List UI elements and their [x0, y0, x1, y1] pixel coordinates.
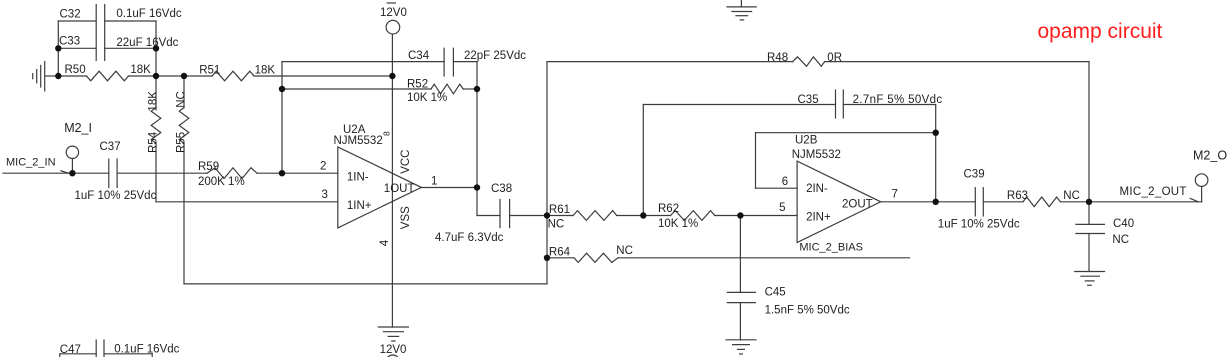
- wire U2B output: [881, 201, 976, 203]
- svg-text:M2_O: M2_O: [1193, 149, 1227, 163]
- wire R48 left vertical: [546, 62, 548, 284]
- junction (58,76): [55, 73, 61, 79]
- resistor R51: [184, 71, 392, 81]
- wire left vertical C32/C33: [57, 21, 59, 76]
- svg-text:C38: C38: [491, 183, 512, 195]
- svg-text:NC: NC: [1112, 234, 1129, 246]
- svg-text:R48: R48: [767, 52, 788, 64]
- svg-text:4: 4: [379, 239, 391, 246]
- svg-text:R52: R52: [407, 78, 428, 90]
- junction (547,258): [544, 255, 550, 261]
- wire bottom feedback rail: [184, 283, 547, 285]
- svg-text:VSS: VSS: [400, 206, 412, 229]
- svg-text:C35: C35: [798, 94, 819, 106]
- svg-text:10K 1%: 10K 1%: [658, 218, 698, 230]
- resistor R59: [207, 168, 338, 179]
- wire pin6 vertical: [755, 133, 757, 189]
- svg-text:R64: R64: [549, 247, 571, 259]
- svg-text:1: 1: [431, 175, 437, 187]
- junction (283,89): [279, 86, 285, 92]
- junction U2B output: [933, 199, 939, 205]
- wire C47 vertical left: [59, 354, 61, 357]
- wire vertical feedback left: [281, 62, 283, 174]
- ground GND-12V0: [378, 327, 408, 341]
- capacitor C37: [109, 159, 117, 187]
- svg-text:R55: R55: [175, 132, 187, 153]
- wire MIC_2_OUT lead: [1089, 201, 1202, 203]
- svg-text:1OUT: 1OUT: [384, 183, 415, 195]
- svg-text:6: 6: [782, 176, 788, 188]
- svg-text:C37: C37: [100, 141, 121, 153]
- ground GND-top-middle: [727, 0, 756, 20]
- svg-text:R54: R54: [147, 131, 159, 153]
- wire right vertical C32/C33: [155, 21, 157, 76]
- testpoint M2_I: [66, 146, 78, 173]
- wire C32 top rail left: [58, 20, 96, 22]
- svg-text:C47: C47: [60, 344, 81, 356]
- svg-text:NC: NC: [175, 91, 187, 108]
- capacitor C40: [1076, 224, 1105, 233]
- svg-text:NC: NC: [1063, 190, 1080, 202]
- wire MIC_2_IN lead: [3, 172, 109, 174]
- svg-text:C33: C33: [59, 36, 80, 48]
- svg-text:10K 1%: 10K 1%: [407, 92, 447, 104]
- junction (184,76): [181, 73, 187, 79]
- resistor R52: [282, 84, 477, 94]
- svg-text:VCC: VCC: [400, 150, 412, 174]
- svg-text:22pF 25Vdc: 22pF 25Vdc: [464, 50, 526, 62]
- svg-text:1uF 10% 25Vdc: 1uF 10% 25Vdc: [938, 218, 1020, 230]
- svg-text:C45: C45: [765, 287, 786, 299]
- svg-text:NC: NC: [616, 245, 633, 257]
- svg-text:2OUT: 2OUT: [842, 199, 873, 211]
- resistor R48: [547, 57, 1089, 66]
- wire U2A output: [421, 187, 477, 189]
- svg-text:R61: R61: [549, 204, 570, 216]
- svg-text:12V0: 12V0: [380, 7, 407, 19]
- wire C47 rail left: [60, 353, 96, 355]
- svg-text:2.7nF 5% 50Vdc: 2.7nF 5% 50Vdc: [853, 94, 943, 106]
- wire C40 to ground: [1088, 234, 1090, 272]
- svg-text:C32: C32: [60, 9, 81, 21]
- svg-text:NC: NC: [548, 219, 565, 231]
- wire pin6 U2B: [756, 187, 798, 189]
- svg-text:NJM5532: NJM5532: [334, 135, 383, 147]
- svg-text:0.1uF 16Vdc: 0.1uF 16Vdc: [114, 344, 179, 356]
- wire C38 to R61: [510, 215, 547, 217]
- svg-text:R63: R63: [1007, 190, 1028, 202]
- svg-text:18K: 18K: [255, 65, 276, 77]
- capacitor C39: [975, 188, 983, 216]
- op-amp U2B: [797, 161, 881, 242]
- wire C45 to ground: [739, 303, 741, 340]
- capacitor C35: [836, 90, 844, 118]
- junction (936,133): [933, 130, 939, 136]
- wire C35 left vertical: [642, 105, 644, 216]
- resistor R64: [547, 253, 910, 262]
- junction (642,216): [640, 212, 646, 218]
- resistor R50: [58, 71, 156, 81]
- svg-text:NJM5532: NJM5532: [792, 149, 841, 161]
- svg-text:1uF 10% 25Vdc: 1uF 10% 25Vdc: [75, 190, 157, 202]
- resistor R63: [983, 197, 1089, 207]
- wire 12V0 to VCC and pin4 to ground: [391, 35, 393, 327]
- svg-text:18K: 18K: [147, 91, 159, 112]
- wire node A to node B: [156, 75, 184, 77]
- junction (58,48): [55, 45, 61, 51]
- capacitor C38: [500, 200, 510, 228]
- svg-text:R51: R51: [199, 65, 220, 77]
- net tick MIC_2_IN: [61, 171, 69, 173]
- svg-text:8: 8: [382, 131, 392, 136]
- wire C37 to R59: [117, 172, 207, 174]
- wire ground to node A: [45, 75, 59, 77]
- wire C47 rail right: [104, 353, 152, 355]
- svg-text:R62: R62: [658, 203, 679, 215]
- svg-text:200K 1%: 200K 1%: [198, 176, 245, 188]
- wire C35 rail right: [843, 104, 935, 106]
- junction (156,48): [153, 45, 159, 51]
- wire C45 vertical: [739, 216, 741, 293]
- svg-text:U2B: U2B: [795, 135, 818, 147]
- op-amp U2A: [338, 147, 422, 228]
- svg-text:12V0: 12V0: [380, 344, 407, 356]
- svg-text:2IN+: 2IN+: [806, 212, 831, 224]
- svg-text:M2_I: M2_I: [64, 121, 92, 135]
- wire C33 rail right: [105, 47, 156, 49]
- wire pin3 U2A: [156, 201, 338, 203]
- resistor R54 (vertical 18K): [151, 76, 161, 202]
- resistor R61: [547, 211, 643, 221]
- junction (740,216): [737, 212, 743, 218]
- wire C34 rail right: [453, 61, 477, 63]
- svg-text:1IN-: 1IN-: [347, 171, 369, 183]
- svg-text:MIC_2_IN: MIC_2_IN: [6, 156, 56, 168]
- svg-text:R59: R59: [198, 161, 219, 173]
- svg-text:3: 3: [322, 189, 328, 201]
- wire output down to C38: [477, 215, 500, 217]
- resistor R62: [643, 211, 797, 221]
- resistor R55 (vertical NC): [179, 76, 189, 284]
- svg-text:18K: 18K: [130, 64, 151, 76]
- svg-text:MIC_2_BIAS: MIC_2_BIAS: [799, 242, 863, 254]
- wire U2B feedback top rail: [756, 132, 936, 134]
- junction (392,76): [389, 73, 395, 79]
- wire C35 rail left: [643, 104, 835, 106]
- svg-text:0.1uF 16Vdc: 0.1uF 16Vdc: [116, 8, 181, 20]
- wire vertical C34/R52 to output: [476, 62, 478, 216]
- junction U2A output: [474, 184, 480, 190]
- svg-text:5: 5: [779, 202, 785, 214]
- svg-text:4.7uF 6.3Vdc: 4.7uF 6.3Vdc: [435, 232, 504, 244]
- net tick MIC_2_OUT: [1190, 198, 1198, 201]
- svg-text:0R: 0R: [827, 52, 842, 64]
- svg-text:C39: C39: [964, 169, 985, 181]
- power 12V0 top: [386, 3, 400, 34]
- svg-text:7: 7: [892, 188, 898, 200]
- svg-text:R50: R50: [65, 64, 86, 76]
- wire C47 vertical right: [151, 354, 153, 357]
- ground GND-left: [33, 62, 45, 91]
- capacitor C34: [444, 48, 453, 76]
- junction M2_I: [69, 170, 75, 176]
- junction (547,216): [544, 212, 550, 218]
- testpoint M2_O: [1195, 174, 1208, 202]
- wire C33 rail left: [58, 47, 96, 49]
- junction (156,76): [153, 73, 159, 79]
- capacitor C32/C33 plates: [96, 5, 105, 61]
- wire C32 top rail right: [105, 20, 156, 22]
- svg-text:C40: C40: [1113, 218, 1134, 230]
- svg-text:2IN-: 2IN-: [806, 183, 828, 195]
- junction (283,174): [279, 170, 285, 176]
- wire C35 right vertical: [935, 105, 937, 202]
- capacitor C47 plates (bottom-left block): [96, 340, 104, 357]
- capacitor C45: [727, 292, 755, 302]
- junction (477,89): [474, 86, 480, 92]
- wire C34 rail left: [282, 61, 444, 63]
- svg-text:22uF 16Vdc: 22uF 16Vdc: [116, 37, 178, 49]
- junction (1089,202): [1086, 199, 1092, 205]
- svg-text:MIC_2_OUT: MIC_2_OUT: [1120, 186, 1187, 198]
- svg-text:C34: C34: [408, 50, 430, 62]
- svg-text:1.5nF 5% 50Vdc: 1.5nF 5% 50Vdc: [765, 305, 850, 317]
- svg-text:1IN+: 1IN+: [347, 200, 372, 212]
- svg-text:opamp circuit: opamp circuit: [1038, 20, 1163, 43]
- wire R48 right vertical: [1088, 62, 1090, 225]
- power 12V0 bottom circle: [386, 355, 400, 362]
- svg-text:2: 2: [320, 161, 326, 173]
- ground GND-C45: [726, 340, 756, 354]
- ground GND-C40: [1075, 272, 1105, 286]
